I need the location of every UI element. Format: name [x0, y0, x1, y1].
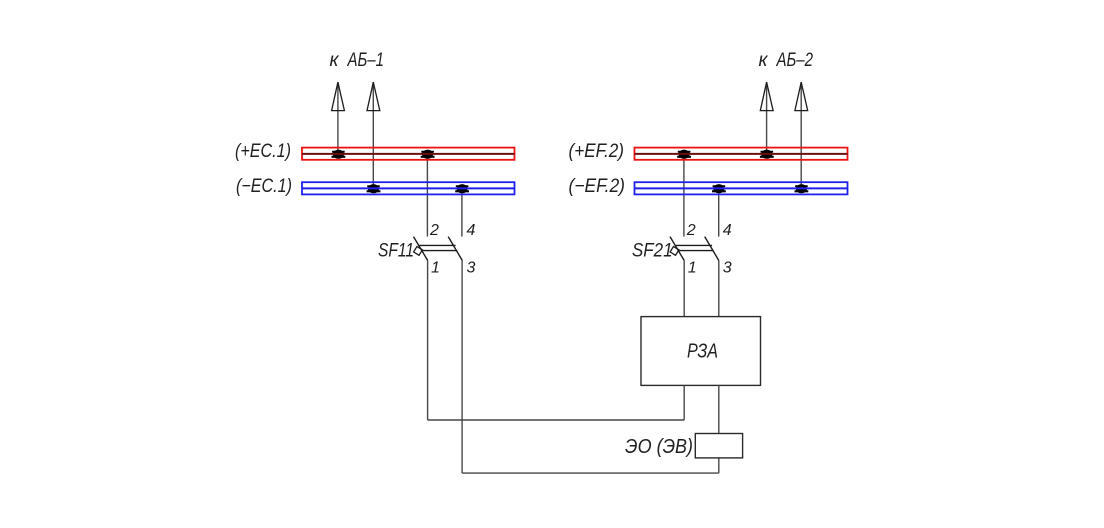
- circuit breaker SF21 (two-pole): [670, 237, 719, 261]
- wire SF11 pin4 to -EC.1 bus: [461, 188, 463, 236]
- svg-text:4: 4: [467, 222, 476, 239]
- SF21 linkage bar upper: [676, 244, 712, 246]
- svg-text:4: 4: [723, 222, 732, 239]
- wire arrow to AB-2 plus (up from +EF.2 bus): [766, 82, 768, 154]
- wire horizontal run 1 (SF11 pin1 to RZA left output): [428, 419, 685, 421]
- svg-text:2: 2: [429, 222, 439, 239]
- junction dot on +EC.1 at x=427.4: [421, 150, 435, 159]
- wire SF21 pin4 to -EF.2 bus: [718, 188, 720, 236]
- svg-text:(+EF.2): (+EF.2): [569, 141, 625, 162]
- wire RZA bottom-left down to horizontal run 1: [683, 385, 685, 420]
- SF11 linkage bar lower: [422, 250, 458, 252]
- bus bar +EF.2 (red, right): [635, 148, 848, 160]
- SF21 pole 1 blade (pins 2-1): [670, 237, 684, 261]
- circuit breaker SF11 (two-pole): [414, 237, 463, 261]
- svg-text:ЭО (ЭВ): ЭО (ЭВ): [625, 436, 693, 458]
- bus bar -EC.1 (blue, left): [302, 182, 515, 194]
- bus bar -EF.2 (blue, right): [635, 182, 848, 194]
- svg-text:(−EF.2): (−EF.2): [569, 176, 626, 197]
- wire SF21 pin1 to RZA box top: [683, 261, 685, 317]
- wire SF11 pin2 to +EC.1 bus: [426, 154, 428, 237]
- block EO (EV) element: [695, 434, 742, 458]
- svg-text:3: 3: [467, 260, 476, 277]
- SF11 pole 2 blade (pins 4-3): [448, 237, 462, 261]
- wire SF21 pin3 to RZA box top: [718, 261, 720, 317]
- arrowhead AB-1 minus: [367, 82, 380, 110]
- junction dot on +EF.2 at x=766.6: [760, 150, 774, 159]
- svg-text:2: 2: [686, 222, 696, 239]
- wire EO box bottom to horizontal run 2: [718, 458, 720, 473]
- wire SF11 pin1 down: [427, 261, 429, 421]
- SF11 linkage bar upper: [419, 244, 455, 246]
- wire SF11 pin3 down: [461, 261, 463, 474]
- block RZA (relay protection unit): [641, 317, 761, 386]
- svg-text:РЗА: РЗА: [687, 340, 718, 362]
- svg-text:кАБ–2: кАБ–2: [759, 50, 814, 71]
- svg-text:кАБ–1: кАБ–1: [330, 50, 385, 71]
- wire arrow to AB-2 minus (up from -EF.2 bus): [800, 82, 802, 188]
- SF21 linkage bar lower: [678, 250, 714, 252]
- junction dot on +EF.2 at x=683.9: [677, 150, 691, 159]
- bus bar +EC.1 (red, left): [302, 148, 515, 160]
- SF21 breaker square symbol: [670, 246, 679, 255]
- wire horizontal run 2 (SF11 pin3 to EO box bottom): [462, 472, 719, 474]
- wire arrow to AB-1 plus (up from +EC.1 bus): [337, 82, 339, 154]
- svg-text:1: 1: [431, 259, 440, 276]
- junction dot on -EC.1 at x=373.3: [367, 184, 381, 193]
- SF11 pole 1 blade (pins 2-1): [414, 237, 428, 261]
- junction dot on -EC.1 at x=461.9: [455, 184, 469, 193]
- svg-text:SF21: SF21: [632, 241, 673, 262]
- arrowhead AB-1 plus: [332, 82, 345, 110]
- junction dot on +EC.1 at x=337.9: [332, 150, 346, 159]
- arrowhead AB-2 minus: [795, 82, 808, 110]
- wire RZA bottom-right down to EO box: [718, 385, 720, 433]
- SF11 breaker square symbol: [414, 246, 423, 255]
- svg-text:(+EC.1): (+EC.1): [235, 141, 291, 162]
- svg-text:3: 3: [723, 260, 732, 277]
- svg-text:(−EC.1): (−EC.1): [236, 176, 292, 197]
- SF21 pole 2 blade (pins 4-3): [705, 237, 719, 261]
- svg-text:SF11: SF11: [378, 241, 414, 262]
- wire arrow to AB-1 minus (up from -EC.1 bus): [372, 82, 374, 188]
- junction dot on -EF.2 at x=718.7: [712, 184, 726, 193]
- svg-text:1: 1: [688, 259, 697, 276]
- junction dot on -EF.2 at x=801.2: [795, 184, 809, 193]
- arrowhead AB-2 plus: [760, 82, 773, 110]
- wire SF21 pin2 to +EF.2 bus: [683, 154, 685, 237]
